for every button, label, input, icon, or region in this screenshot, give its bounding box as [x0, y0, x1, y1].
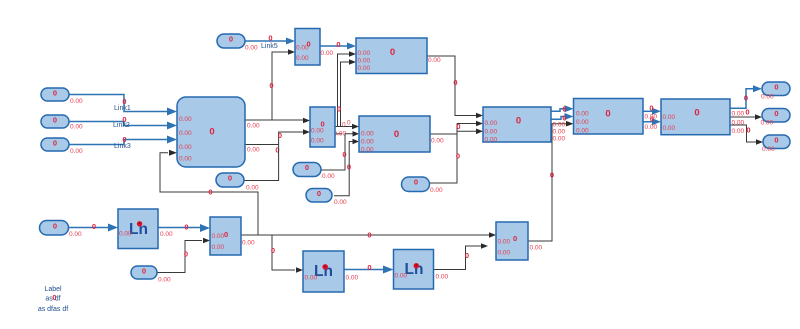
- svg-text:0: 0: [228, 174, 232, 183]
- svg-text:0: 0: [268, 34, 272, 43]
- svg-text:0.00: 0.00: [321, 50, 334, 57]
- annotation text bottom left: [38, 286, 68, 313]
- svg-text:0: 0: [745, 108, 749, 117]
- block G (big rounded compound): [177, 97, 260, 167]
- svg-text:0.00: 0.00: [761, 120, 774, 127]
- svg-text:0.00: 0.00: [179, 156, 192, 163]
- wire W8 capsule V7 to S2 port2 (black riser): [244, 129, 310, 180]
- svg-text:Link3: Link3: [114, 143, 131, 150]
- svg-text:0: 0: [550, 171, 554, 180]
- block F (lower left small): [210, 217, 255, 255]
- wire W5 Link2: capsule V3 to G port2 (blue): [69, 115, 177, 130]
- svg-text:as dfas df: as dfas df: [38, 306, 68, 313]
- svg-text:0: 0: [367, 263, 371, 272]
- svg-text:0.00: 0.00: [322, 173, 335, 180]
- svg-text:Label: Label: [44, 286, 62, 293]
- svg-text:0: 0: [774, 136, 778, 145]
- svg-text:0.00: 0.00: [296, 55, 309, 62]
- svg-text:0.00: 0.00: [485, 137, 498, 144]
- svg-text:0.00: 0.00: [346, 275, 359, 282]
- block Ln2: [303, 251, 359, 292]
- svg-text:0: 0: [224, 230, 228, 239]
- svg-text:0.00: 0.00: [305, 275, 318, 282]
- svg-text:0.00: 0.00: [311, 138, 324, 145]
- svg-text:0.00: 0.00: [179, 144, 192, 151]
- wire W23 capsule V5 to Ln1 (blue): [69, 222, 119, 232]
- svg-text:0: 0: [53, 222, 57, 231]
- svg-text:0.00: 0.00: [732, 111, 745, 118]
- svg-text:0.00: 0.00: [247, 147, 260, 154]
- svg-text:Link2: Link2: [113, 122, 130, 129]
- wire W28 Ln3 out to E port2 (black): [434, 243, 489, 269]
- svg-text:0: 0: [347, 120, 351, 127]
- wire W1 capsule V1 to S1 port1 (Link5, blue): [245, 34, 295, 51]
- wire W12 capsule V9 to C port3 (black): [334, 139, 359, 196]
- svg-text:0: 0: [92, 222, 96, 231]
- block A (right wide 1): [574, 99, 658, 135]
- wire W9 S2 out1 to C port1, risers to B1 port2 and B1 port3 (black): [335, 51, 359, 129]
- svg-text:0: 0: [53, 89, 57, 98]
- svg-text:0: 0: [605, 109, 610, 120]
- capsule V12 (sink 2): [761, 109, 791, 127]
- capsule V5 (bottom chain source): [40, 221, 83, 239]
- svg-text:0: 0: [456, 152, 460, 161]
- svg-text:0.00: 0.00: [179, 130, 192, 137]
- wire W13 B1 out to D port1 (black): [427, 56, 483, 118]
- block Ln3: [394, 250, 449, 290]
- wire W24 Ln1 out to F port1 (blue): [158, 223, 210, 233]
- svg-text:0.00: 0.00: [431, 138, 444, 145]
- svg-text:0.00: 0.00: [160, 231, 173, 238]
- block B1 (top wide): [356, 38, 441, 74]
- svg-text:0: 0: [209, 127, 214, 138]
- svg-text:0: 0: [184, 250, 188, 259]
- svg-text:0: 0: [414, 178, 418, 187]
- block E (lower right small): [496, 222, 543, 260]
- svg-text:0.00: 0.00: [436, 274, 449, 281]
- wire W15 D out1 to A port1 (blue): [551, 105, 574, 114]
- wire W6 Link3: capsule V4 to G port3 (blue): [69, 135, 177, 150]
- wire W22 E out to A port3 (black): [528, 121, 574, 241]
- wire W27 Ln2 out to Ln3 (blue): [344, 263, 394, 274]
- svg-text:0.00: 0.00: [576, 119, 589, 126]
- svg-text:0.00: 0.00: [334, 199, 347, 206]
- capsule V9 (feeds C port2): [306, 189, 347, 207]
- capsule V2 (Link1 source): [41, 88, 83, 105]
- wire W10 S2 out2 stub (black): [334, 120, 352, 138]
- svg-text:0.00: 0.00: [246, 185, 259, 192]
- block Ln1: [118, 209, 173, 249]
- wire W7 G out2 to riser (black): [245, 145, 280, 155]
- svg-text:0: 0: [307, 40, 311, 49]
- wire W2 G out1 to S1 port2 and S2 port1 (black): [245, 49, 310, 123]
- svg-text:0.00: 0.00: [553, 129, 566, 136]
- svg-text:0.00: 0.00: [430, 187, 443, 194]
- svg-text:0.00: 0.00: [732, 120, 745, 127]
- svg-text:0: 0: [229, 35, 233, 44]
- svg-text:0.00: 0.00: [245, 45, 258, 52]
- svg-text:0: 0: [342, 122, 346, 129]
- capsule V11 (sink 1): [761, 82, 790, 101]
- wire W4 Link1: capsule V2 to G port1 (blue): [69, 95, 177, 116]
- block B (right wide 2): [661, 99, 745, 135]
- svg-text:0: 0: [774, 83, 778, 92]
- wire W19 B out1 to capsule V11 (blue): [730, 85, 762, 108]
- wire W20 B out2 to capsule V12 (black): [730, 108, 762, 120]
- svg-text:0.00: 0.00: [485, 120, 498, 127]
- svg-text:0: 0: [456, 122, 460, 131]
- block S2 (middle small): [310, 107, 335, 147]
- svg-text:0.00: 0.00: [361, 147, 374, 154]
- svg-text:0.00: 0.00: [395, 273, 408, 280]
- svg-text:0.00: 0.00: [732, 128, 745, 135]
- capsule V6 (feeds F port2): [131, 266, 171, 284]
- svg-text:0.00: 0.00: [69, 231, 82, 238]
- svg-text:0.00: 0.00: [485, 129, 498, 136]
- svg-text:0.00: 0.00: [553, 122, 566, 129]
- svg-text:0.00: 0.00: [530, 245, 543, 252]
- capsule V4 (Link3 source): [41, 138, 83, 155]
- svg-text:0: 0: [53, 139, 57, 148]
- svg-text:0: 0: [208, 188, 212, 197]
- svg-text:0: 0: [465, 251, 469, 260]
- block S1 (top small): [295, 29, 334, 66]
- block D (centre): [483, 107, 566, 144]
- wire W25 capsule V6 to F port2 (black): [157, 238, 210, 273]
- svg-text:0: 0: [390, 47, 395, 58]
- svg-text:Link1: Link1: [114, 105, 131, 112]
- svg-text:0: 0: [122, 135, 126, 144]
- svg-text:0: 0: [516, 116, 521, 127]
- svg-text:0: 0: [52, 293, 56, 302]
- svg-text:Ln: Ln: [405, 261, 424, 278]
- capsule V7 (below G): [216, 173, 259, 192]
- svg-text:0.00: 0.00: [119, 231, 132, 238]
- svg-text:0: 0: [337, 105, 341, 114]
- wire W11 capsule V8 to C port2 (black): [321, 131, 359, 170]
- wire W26 F out trunk to E port1, with feedback to G port4 and branch to Ln2 (black): [160, 150, 496, 273]
- svg-text:0.00: 0.00: [358, 50, 371, 57]
- wire W16 D out2 to A port2 (blue): [551, 113, 574, 123]
- capsule V10 (feeds D via riser): [402, 177, 444, 194]
- capsule V13 (sink 3): [762, 135, 790, 153]
- svg-text:0.00: 0.00: [212, 233, 225, 240]
- svg-text:0: 0: [278, 131, 282, 140]
- svg-text:0.00: 0.00: [361, 131, 374, 138]
- svg-text:0: 0: [122, 115, 126, 124]
- svg-text:0: 0: [184, 223, 188, 232]
- svg-text:0.00: 0.00: [498, 250, 511, 257]
- svg-text:0.00: 0.00: [358, 58, 371, 65]
- svg-text:0.00: 0.00: [70, 124, 83, 131]
- svg-text:0: 0: [317, 189, 321, 198]
- svg-text:0: 0: [367, 231, 371, 240]
- svg-text:0.00: 0.00: [361, 139, 374, 146]
- svg-text:0.00: 0.00: [158, 277, 171, 284]
- svg-text:0: 0: [453, 78, 457, 87]
- svg-text:0: 0: [271, 246, 275, 255]
- svg-text:0.00: 0.00: [212, 244, 225, 251]
- svg-text:0: 0: [269, 81, 273, 90]
- svg-text:0.00: 0.00: [242, 240, 255, 247]
- wire W14 C out to D port2, D port3 and capsule V10 riser (black): [429, 121, 483, 183]
- svg-text:0.00: 0.00: [70, 148, 83, 155]
- svg-text:0: 0: [649, 104, 653, 113]
- svg-text:0.00: 0.00: [663, 125, 676, 132]
- svg-text:0.00: 0.00: [762, 146, 775, 153]
- svg-text:0.00: 0.00: [247, 123, 260, 130]
- svg-text:0: 0: [774, 109, 778, 118]
- svg-text:0.00: 0.00: [70, 98, 83, 105]
- svg-text:0: 0: [694, 108, 699, 119]
- svg-text:0: 0: [394, 129, 399, 140]
- svg-text:0.00: 0.00: [428, 57, 441, 64]
- capsule V8 (feeds C port1): [293, 163, 335, 181]
- svg-text:0: 0: [347, 163, 351, 172]
- svg-text:0: 0: [562, 105, 566, 114]
- svg-text:0.00: 0.00: [498, 239, 511, 246]
- svg-text:0: 0: [513, 234, 517, 243]
- wire W17 A out1 to B port1 (blue): [643, 104, 661, 115]
- svg-text:0.00: 0.00: [576, 111, 589, 118]
- svg-text:0: 0: [122, 97, 126, 106]
- svg-text:0.00: 0.00: [553, 136, 566, 143]
- svg-text:0: 0: [321, 120, 325, 129]
- svg-text:0: 0: [142, 267, 146, 276]
- svg-text:0.00: 0.00: [576, 128, 589, 135]
- svg-text:0.00: 0.00: [179, 116, 192, 123]
- wire W21 B out3 to capsule V13 (black): [730, 125, 763, 145]
- svg-text:0: 0: [744, 94, 748, 103]
- svg-text:0.00: 0.00: [761, 94, 774, 101]
- svg-text:0.00: 0.00: [311, 128, 324, 135]
- capsule V3 (Link2 source): [41, 115, 83, 131]
- wire W3 S1 out to B1 port1 (blue): [320, 40, 356, 50]
- svg-text:0.00: 0.00: [663, 114, 676, 121]
- svg-text:Link5: Link5: [261, 43, 278, 50]
- wire W18 A out2 to B port2 (blue): [643, 115, 661, 126]
- block C (middle wide): [359, 116, 444, 154]
- svg-text:0: 0: [746, 126, 750, 135]
- svg-text:0.00: 0.00: [645, 114, 658, 121]
- svg-text:0.00: 0.00: [358, 65, 371, 72]
- svg-text:0: 0: [53, 116, 57, 125]
- svg-text:0: 0: [305, 163, 309, 172]
- svg-text:0.00: 0.00: [645, 124, 658, 131]
- capsule V1 (top, feeds Link5): [217, 34, 258, 52]
- svg-text:0: 0: [336, 40, 340, 49]
- svg-text:0: 0: [342, 150, 346, 159]
